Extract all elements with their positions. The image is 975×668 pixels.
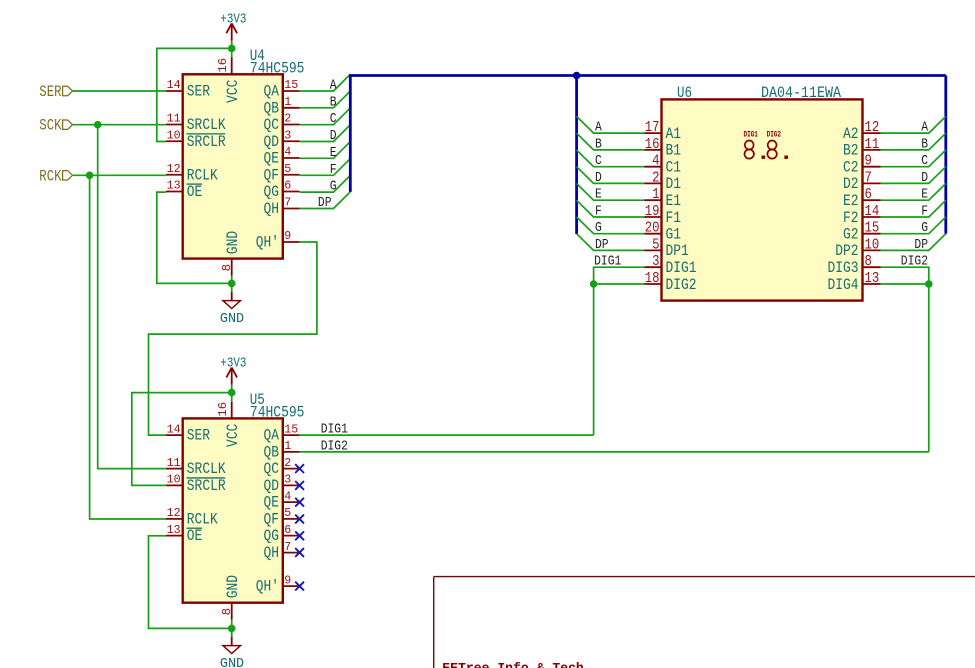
junction RCK — [86, 172, 94, 180]
wire OE to GND U5 — [149, 536, 232, 629]
ground symbol U4 — [220, 283, 244, 327]
svg-text:D2: D2 — [843, 175, 859, 193]
svg-text:5: 5 — [284, 506, 291, 520]
svg-text:OE: OE — [187, 527, 203, 545]
junction GND/U4 — [228, 280, 236, 288]
pin 12 RCLK U4 — [166, 162, 218, 184]
svg-text:DP: DP — [595, 237, 609, 253]
svg-text:SRCLK: SRCLK — [187, 460, 226, 478]
svg-text:F2: F2 — [843, 209, 859, 227]
pin 4 C1 U6 — [645, 154, 682, 177]
svg-text:B: B — [330, 94, 337, 110]
svg-text:GND: GND — [220, 311, 244, 327]
svg-text:13: 13 — [167, 179, 181, 193]
hierarchical label RCK — [39, 167, 72, 185]
svg-text:VCC: VCC — [224, 80, 242, 103]
svg-text:D: D — [921, 170, 928, 186]
svg-text:4: 4 — [284, 145, 291, 159]
bus horizontal top — [349, 74, 946, 77]
svg-text:+3V3: +3V3 — [220, 356, 246, 372]
power symbol +3V3 (U4) — [220, 12, 246, 49]
pin 8 DIG3 U6 — [828, 254, 881, 277]
svg-text:C: C — [921, 153, 928, 169]
pin 15 G2 U6 — [843, 221, 881, 244]
IC U6 DA04-11EWA body — [662, 99, 863, 300]
wire net DIG1 from U5 QA — [300, 434, 594, 436]
svg-text:7: 7 — [284, 196, 291, 210]
pin 18 DIG2 U6 — [645, 271, 697, 294]
junction SCK — [94, 121, 102, 129]
svg-text:E2: E2 — [843, 192, 859, 210]
wire net A to U6 right — [881, 116, 946, 133]
wire SER — [73, 90, 166, 92]
svg-text:10: 10 — [865, 237, 880, 253]
wire net E to U6 left — [577, 184, 645, 201]
wire QH' U4 to U5 SER — [149, 242, 317, 435]
svg-text:QB: QB — [264, 444, 280, 462]
svg-text:A2: A2 — [843, 125, 859, 143]
svg-text:QG: QG — [264, 527, 280, 545]
no-connect X QC U5 — [295, 464, 304, 473]
svg-text:18: 18 — [645, 271, 660, 287]
pin 9 QH' U4 — [256, 229, 300, 251]
svg-text:4: 4 — [652, 154, 659, 170]
pin 9 C2 U6 — [843, 154, 881, 177]
svg-text:B: B — [921, 136, 928, 152]
svg-text:1: 1 — [652, 187, 659, 203]
svg-text:C: C — [330, 111, 337, 127]
svg-text:15: 15 — [284, 78, 298, 92]
wire net C to U6 right — [881, 150, 946, 167]
svg-text:16: 16 — [216, 58, 230, 73]
pin 17 A1 U6 — [645, 120, 682, 143]
svg-text:QH': QH' — [256, 234, 279, 252]
svg-text:QH: QH — [264, 200, 280, 218]
pin 13 OE U5 — [166, 523, 202, 545]
svg-text:SER: SER — [187, 427, 211, 445]
svg-text:OE: OE — [187, 183, 203, 201]
pin 3 QD U5 — [264, 473, 300, 495]
wire GND pin U5 — [231, 620, 233, 629]
svg-text:DA04-11EWA: DA04-11EWA — [761, 84, 841, 102]
svg-text:G: G — [595, 220, 602, 236]
pin 12 RCLK U5 — [166, 506, 218, 528]
svg-text:DIG1: DIG1 — [594, 254, 621, 270]
svg-text:D1: D1 — [666, 175, 682, 193]
svg-text:QH': QH' — [256, 578, 279, 596]
pin 14 SER U5 — [166, 422, 210, 444]
svg-text:G1: G1 — [666, 226, 682, 244]
wire net G from U4 — [300, 175, 351, 192]
svg-text:8: 8 — [220, 264, 234, 271]
svg-text:10: 10 — [167, 128, 181, 142]
title block frame — [434, 576, 975, 578]
wire net F to U6 left — [577, 200, 645, 217]
svg-text:74HC595: 74HC595 — [250, 403, 305, 421]
svg-text:QH: QH — [264, 544, 280, 562]
svg-text:2: 2 — [652, 170, 659, 186]
svg-text:+3V3: +3V3 — [220, 12, 246, 28]
svg-text:GND: GND — [220, 656, 244, 668]
wire net D from U4 — [300, 125, 351, 142]
wire DIG1 U6 pin18 — [594, 283, 645, 285]
svg-text:DIG2: DIG2 — [901, 254, 928, 270]
pin 1 QB U4 — [264, 95, 300, 117]
svg-text:9: 9 — [284, 573, 291, 587]
svg-text:QE: QE — [264, 494, 280, 512]
wire RCK to U5 RCLK — [90, 175, 166, 519]
svg-text:15: 15 — [865, 221, 880, 237]
wire net D to U6 right — [881, 167, 946, 184]
bus vertical left of U6 — [575, 76, 578, 235]
pin 20 G1 U6 — [645, 221, 682, 244]
svg-text:8: 8 — [220, 608, 234, 615]
junction +3V3/U5 — [228, 389, 236, 397]
wire net B to U6 left — [577, 133, 645, 150]
pin 16 VCC U5 — [216, 402, 242, 448]
svg-text:G: G — [921, 220, 928, 236]
pin 12 A2 U6 — [843, 120, 881, 143]
svg-text:F: F — [595, 204, 602, 220]
pin 16 B1 U6 — [645, 137, 682, 160]
wire net DP from U4 — [300, 192, 351, 209]
pin 9 QH' U5 — [256, 573, 300, 595]
wire net A from U4 — [300, 74, 351, 91]
wire net B to U6 right — [881, 133, 946, 150]
wire net D to U6 left — [577, 167, 645, 184]
svg-text:E1: E1 — [666, 192, 682, 210]
svg-text:17: 17 — [645, 120, 660, 136]
wire net C to U6 left — [577, 150, 645, 167]
svg-text:14: 14 — [865, 204, 880, 220]
wire SCK to U5 SRCLK — [98, 125, 166, 469]
pin 5 DP1 U6 — [645, 237, 689, 260]
svg-text:DIG1: DIG1 — [666, 259, 697, 277]
hierarchical label SCK — [39, 117, 72, 135]
svg-text:VCC: VCC — [224, 424, 242, 447]
svg-text:QA: QA — [264, 83, 280, 101]
svg-text:QD: QD — [264, 133, 280, 151]
svg-text:B1: B1 — [666, 142, 682, 160]
svg-text:SRCLR: SRCLR — [187, 477, 226, 495]
svg-text:1: 1 — [284, 439, 291, 453]
svg-text:2: 2 — [284, 112, 291, 126]
svg-text:6: 6 — [284, 179, 291, 193]
svg-text:B: B — [595, 136, 602, 152]
pin 15 QA U5 — [264, 422, 300, 444]
svg-text:15: 15 — [284, 422, 298, 436]
pin 4 QE U4 — [264, 145, 300, 167]
wire VCC stub U4 — [231, 48, 233, 57]
wire GND pin U4 — [231, 276, 233, 284]
svg-text:U6: U6 — [677, 84, 692, 102]
svg-text:C: C — [595, 153, 602, 169]
pin 16 VCC U4 — [216, 58, 242, 104]
wire SCK — [73, 124, 166, 126]
no-connect X QH' U5 — [295, 582, 304, 591]
junction DIG2 — [925, 280, 933, 288]
svg-text:DIG2: DIG2 — [666, 276, 697, 294]
ground symbol U5 — [220, 628, 244, 668]
pin 19 F1 U6 — [645, 204, 682, 227]
svg-text:RCLK: RCLK — [187, 510, 218, 528]
svg-text:11: 11 — [167, 456, 181, 470]
svg-text:DIG3: DIG3 — [828, 259, 859, 277]
wire VCC stub U5 — [231, 393, 233, 402]
svg-text:SCK: SCK — [39, 117, 62, 135]
display graphic 8.8. — [745, 141, 777, 159]
svg-text:DIG2: DIG2 — [767, 129, 781, 139]
svg-text:QG: QG — [264, 183, 280, 201]
svg-text:GND: GND — [224, 231, 242, 254]
svg-text:16: 16 — [216, 402, 230, 417]
pin 11 SRCLK U4 — [166, 112, 226, 134]
svg-text:B2: B2 — [843, 142, 859, 160]
pin 2 QC U5 — [264, 456, 300, 478]
pin 10 SRCLR U5 — [166, 473, 226, 495]
wire net C from U4 — [300, 108, 351, 125]
wire net F from U4 — [300, 159, 351, 176]
svg-text:4: 4 — [284, 489, 291, 503]
svg-text:DIG1: DIG1 — [321, 422, 348, 438]
svg-text:QC: QC — [264, 116, 280, 134]
svg-text:EETree Info & Tech: EETree Info & Tech — [442, 661, 584, 668]
svg-text:C1: C1 — [666, 159, 682, 177]
bus junction — [573, 72, 581, 80]
bus vertical at U4 outputs — [349, 76, 352, 192]
svg-text:5: 5 — [652, 237, 659, 253]
pin 1 QB U5 — [264, 439, 300, 461]
pin 14 F2 U6 — [843, 204, 881, 227]
svg-text:A: A — [330, 78, 337, 94]
no-connect X QH U5 — [295, 548, 304, 557]
svg-text:7: 7 — [284, 540, 291, 554]
pin 13 DIG4 U6 — [828, 271, 881, 294]
svg-text:3: 3 — [652, 254, 659, 270]
wire net DIG2 from U5 QB — [300, 451, 929, 453]
svg-text:11: 11 — [167, 112, 181, 126]
svg-text:2: 2 — [284, 456, 291, 470]
wire DIG2 U6 pin13 — [881, 283, 929, 285]
svg-text:QF: QF — [264, 510, 280, 528]
wire net E from U4 — [300, 142, 351, 159]
pin 7 QH U4 — [264, 196, 300, 218]
svg-text:10: 10 — [167, 473, 181, 487]
svg-text:SRCLK: SRCLK — [187, 116, 226, 134]
svg-text:19: 19 — [645, 204, 660, 220]
svg-text:E: E — [595, 187, 602, 203]
svg-text:20: 20 — [645, 221, 660, 237]
svg-text:A1: A1 — [666, 125, 682, 143]
pin 7 QH U5 — [264, 540, 300, 562]
pin 5 QF U4 — [264, 162, 300, 184]
pin 6 QG U4 — [264, 179, 300, 201]
svg-text:E: E — [921, 187, 928, 203]
wire net G to U6 right — [881, 217, 946, 234]
pin 8 GND U4 — [220, 231, 242, 276]
pin 3 DIG1 U6 — [645, 254, 697, 277]
svg-text:6: 6 — [865, 187, 872, 203]
pin 3 QD U4 — [264, 128, 300, 150]
svg-text:QB: QB — [264, 99, 280, 117]
svg-text:D: D — [330, 128, 337, 144]
junction DIG1 — [590, 280, 598, 288]
junction +3V3/U4 — [228, 45, 236, 53]
svg-text:QD: QD — [264, 477, 280, 495]
svg-text:G: G — [330, 179, 337, 195]
svg-text:DP1: DP1 — [666, 242, 689, 260]
wire net E to U6 right — [881, 184, 946, 201]
svg-text:SER: SER — [39, 83, 62, 101]
pin 11 SRCLK U5 — [166, 456, 226, 478]
pin 5 QF U5 — [264, 506, 300, 528]
pin 6 E2 U6 — [843, 187, 881, 210]
svg-text:C2: C2 — [843, 159, 859, 177]
svg-text:7: 7 — [865, 170, 872, 186]
svg-text:12: 12 — [167, 162, 181, 176]
pin 13 OE U4 — [166, 179, 202, 201]
wire SRCLR to +3V3 U4 — [157, 48, 232, 141]
junction GND/U5 — [228, 625, 236, 633]
pin 1 E1 U6 — [645, 187, 682, 210]
svg-text:QA: QA — [264, 427, 280, 445]
svg-text:12: 12 — [865, 120, 880, 136]
no-connect X QG U5 — [295, 531, 304, 540]
pin 10 DP2 U6 — [835, 237, 880, 260]
svg-text:A: A — [595, 120, 602, 136]
svg-text:F: F — [921, 204, 928, 220]
svg-text:A: A — [921, 120, 928, 136]
pin 2 D1 U6 — [645, 170, 682, 193]
svg-text:14: 14 — [167, 78, 181, 92]
svg-text:E: E — [330, 145, 337, 161]
svg-text:3: 3 — [284, 128, 291, 142]
svg-text:6: 6 — [284, 523, 291, 537]
bus vertical right of U6 — [944, 76, 947, 234]
svg-text:QC: QC — [264, 460, 280, 478]
pin 15 QA U4 — [264, 78, 300, 100]
svg-text:DIG2: DIG2 — [321, 438, 348, 454]
svg-text:74HC595: 74HC595 — [250, 59, 305, 77]
pin 6 QG U5 — [264, 523, 300, 545]
pin 11 B2 U6 — [843, 137, 881, 160]
svg-text:1: 1 — [284, 95, 291, 109]
svg-text:12: 12 — [167, 506, 181, 520]
svg-text:3: 3 — [284, 473, 291, 487]
svg-text:11: 11 — [865, 137, 880, 153]
svg-text:RCK: RCK — [39, 167, 62, 185]
svg-text:DP: DP — [318, 195, 332, 211]
pin 2 QC U4 — [264, 112, 300, 134]
wire net F to U6 right — [881, 200, 946, 217]
svg-text:13: 13 — [865, 271, 880, 287]
no-connect X QD U5 — [295, 481, 304, 490]
svg-text:13: 13 — [167, 523, 181, 537]
power symbol +3V3 (U5) — [220, 356, 246, 393]
wire SRCLR to +3V3 U5 — [132, 393, 232, 486]
svg-text:9: 9 — [865, 154, 872, 170]
pin 10 SRCLR U4 — [166, 128, 226, 150]
svg-text:RCLK: RCLK — [187, 166, 218, 184]
wire OE to GND U4 — [157, 192, 232, 283]
hierarchical label SER — [39, 83, 72, 101]
svg-text:DIG4: DIG4 — [828, 276, 859, 294]
wire net DP to U6 left — [577, 234, 645, 251]
wire RCK — [73, 174, 166, 176]
no-connect X QE U5 — [295, 498, 304, 507]
svg-text:8: 8 — [865, 254, 872, 270]
svg-text:F1: F1 — [666, 209, 682, 227]
wire net G to U6 left — [577, 217, 645, 234]
wire net DP to U6 right — [881, 234, 946, 251]
svg-text:GND: GND — [224, 575, 242, 598]
IC U5 74HC595 body — [183, 418, 283, 602]
svg-text:QF: QF — [264, 166, 280, 184]
svg-text:DIG1: DIG1 — [744, 129, 758, 139]
svg-text:SRCLR: SRCLR — [187, 133, 226, 151]
pin 7 D2 U6 — [843, 170, 881, 193]
pin 4 QE U5 — [264, 489, 300, 511]
svg-text:9: 9 — [284, 229, 291, 243]
svg-text:5: 5 — [284, 162, 291, 176]
wire net B from U4 — [300, 91, 351, 108]
svg-text:G2: G2 — [843, 226, 859, 244]
svg-text:QE: QE — [264, 150, 280, 168]
svg-text:DP2: DP2 — [835, 242, 858, 260]
svg-text:16: 16 — [645, 137, 660, 153]
svg-text:DP: DP — [914, 237, 928, 253]
pin 8 GND U5 — [220, 575, 242, 620]
svg-text:F: F — [330, 162, 337, 178]
IC U4 74HC595 body — [183, 74, 283, 258]
wire net A to U6 left — [577, 116, 645, 133]
svg-text:D: D — [595, 170, 602, 186]
svg-text:14: 14 — [167, 422, 181, 436]
no-connect X QF U5 — [295, 515, 304, 524]
svg-text:SER: SER — [187, 83, 211, 101]
pin 14 SER U4 — [166, 78, 210, 100]
wire DIG2 U6 pin8 — [881, 267, 929, 452]
wire DIG1 U6 pin3 — [594, 267, 645, 435]
